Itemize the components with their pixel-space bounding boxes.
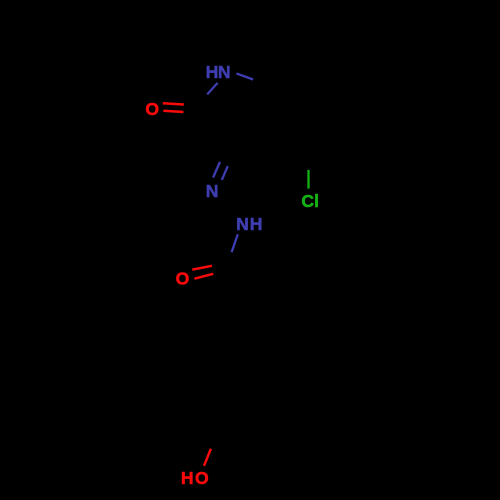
svg-text:H: H (206, 62, 219, 82)
svg-text:Cl: Cl (301, 191, 319, 211)
svg-text:N: N (218, 62, 231, 82)
svg-text:N: N (206, 181, 219, 201)
svg-text:O: O (176, 269, 190, 289)
svg-text:O: O (195, 468, 209, 488)
svg-text:O: O (145, 99, 159, 119)
svg-text:N: N (236, 214, 249, 234)
svg-text:H: H (181, 468, 194, 488)
svg-text:H: H (250, 214, 263, 234)
